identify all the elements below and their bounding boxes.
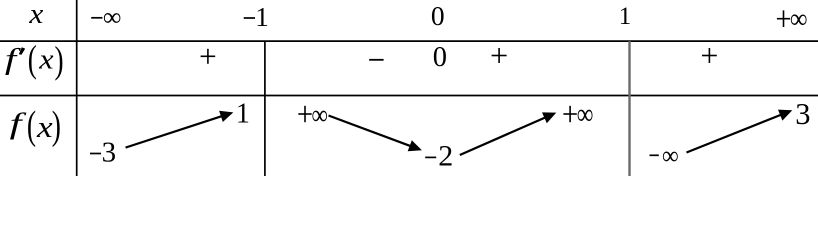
svg-text:x: x xyxy=(28,0,43,30)
svg-text:(: ( xyxy=(27,103,36,147)
plus sign of f' on (-inf,-1) xyxy=(201,49,216,64)
minus of -1 in x row xyxy=(244,17,255,19)
svg-text:0: 0 xyxy=(431,0,445,31)
svg-text:∞: ∞ xyxy=(790,2,808,34)
plus sign of f' on (0,1) xyxy=(492,48,507,63)
increasing arrow from -3 to 1 xyxy=(126,111,234,148)
svg-text:x: x xyxy=(38,43,54,75)
main column separator line xyxy=(76,0,78,176)
plus sign of f' on (1,+inf) xyxy=(702,48,717,63)
svg-text:1: 1 xyxy=(236,98,250,129)
plus of +infinity before 1 xyxy=(563,106,576,122)
svg-text:2: 2 xyxy=(438,140,453,173)
plus of +infinity in x row xyxy=(777,10,790,27)
svg-text:f: f xyxy=(10,106,27,139)
svg-text:∞: ∞ xyxy=(312,99,328,131)
svg-text:3: 3 xyxy=(795,97,810,131)
minus of -2 xyxy=(425,156,436,158)
decreasing arrow from +inf to -2 xyxy=(329,116,422,152)
svg-text:1: 1 xyxy=(619,3,632,30)
plus of +infinity before -1 xyxy=(298,106,311,122)
minus of -infinity in x row xyxy=(91,17,102,19)
increasing arrow from -2 to +inf xyxy=(460,112,557,155)
svg-text:0: 0 xyxy=(433,42,447,73)
svg-text:∞: ∞ xyxy=(577,97,594,130)
minus sign of f' on (-1,0) xyxy=(369,59,383,61)
svg-text:x: x xyxy=(36,111,53,144)
horizontal row separator under x row xyxy=(0,40,818,42)
svg-text:∞: ∞ xyxy=(103,3,122,32)
horizontal row separator under f'(x) row xyxy=(0,95,818,97)
svg-text:): ) xyxy=(52,103,61,147)
svg-text:∞: ∞ xyxy=(662,142,679,170)
svg-text:): ) xyxy=(55,39,64,81)
svg-text:3: 3 xyxy=(102,136,117,168)
minus of -3 xyxy=(90,153,101,155)
increasing arrow from -inf to 3 xyxy=(687,110,793,153)
minus of -infinity after 1 xyxy=(650,154,659,156)
svg-text:1: 1 xyxy=(255,2,269,32)
vertical separator at x = 1 (lighter) xyxy=(628,41,630,176)
svg-text:f: f xyxy=(5,41,21,75)
svg-text:(: ( xyxy=(28,38,37,80)
row header f'(x): prime mark xyxy=(19,47,25,55)
vertical separator at x = -1 xyxy=(264,41,266,176)
